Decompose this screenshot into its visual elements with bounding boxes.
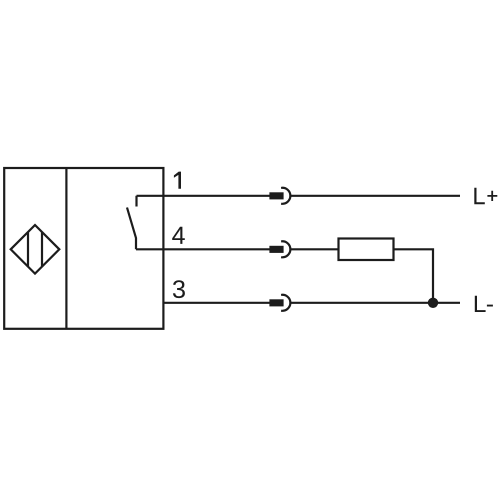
connector plug pin wire 3 [271, 300, 283, 305]
pin label 1 [174, 172, 181, 189]
net label L- [475, 296, 493, 312]
switch contact (normally open) [127, 196, 137, 250]
wire 4 to resistor [291, 248, 339, 250]
diamond inner line right [41, 232, 43, 267]
resistor R1 [339, 239, 394, 261]
connector socket arc wire 4 [281, 241, 290, 257]
net label L+ [474, 188, 497, 205]
wire 4 left segment [136, 248, 271, 250]
wire 3 right segment to L- [291, 302, 460, 304]
pin label 3 [173, 280, 185, 298]
connector plug pin wire 4 [271, 247, 283, 252]
wire 1 left segment [137, 195, 271, 197]
wire 1 right segment to L+ [291, 195, 460, 197]
connector socket arc wire 3 [281, 295, 290, 311]
diamond inner line left [27, 232, 29, 267]
connector socket arc wire 1 [281, 188, 290, 204]
wire resistor to corner [394, 249, 434, 302]
proximity sensor diamond [11, 225, 60, 274]
sensor body outline [4, 168, 163, 329]
pin label 4 [172, 227, 185, 244]
sensor body divider [65, 168, 67, 329]
junction dot [428, 298, 438, 308]
connector plug pin wire 1 [271, 193, 283, 198]
wire 3 left segment [163, 302, 270, 304]
